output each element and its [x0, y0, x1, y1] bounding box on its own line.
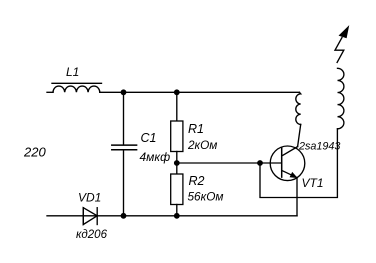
- svg-text:VD1: VD1: [78, 191, 101, 205]
- svg-text:VT1: VT1: [302, 176, 324, 190]
- wire R2 bottom lead: [176, 205, 178, 216]
- inductor L1: [52, 83, 102, 92]
- wire feedback loop to secondary bottom: [260, 129, 337, 198]
- node D: base/feedback junction: [257, 160, 263, 166]
- wire bottom rail: [47, 215, 297, 217]
- node C: R1/R2/base junction: [174, 160, 180, 166]
- svg-text:2кОм: 2кОм: [187, 138, 217, 152]
- svg-text:R1: R1: [188, 122, 204, 136]
- svg-text:56кОм: 56кОм: [188, 190, 224, 204]
- diode VD1: [83, 208, 97, 225]
- capacitor C1: [112, 145, 137, 150]
- svg-text:R2: R2: [189, 174, 205, 188]
- inductor primary winding: [296, 92, 301, 124]
- inductor secondary winding: [338, 68, 344, 129]
- wire emitter lead down: [296, 178, 298, 216]
- resistor R1: [171, 121, 183, 152]
- svg-text:2sa1943: 2sa1943: [298, 140, 340, 152]
- wire base wire from divider to transistor: [177, 162, 281, 164]
- svg-text:L1: L1: [66, 65, 79, 79]
- resistor R2: [171, 174, 183, 205]
- node E: bottom rail / C1 junction: [121, 213, 127, 219]
- wire R1 bottom lead: [176, 152, 178, 164]
- node F: bottom rail / R2 junction: [174, 213, 180, 219]
- svg-text:4мкф: 4мкф: [140, 150, 171, 164]
- svg-text:220: 220: [23, 145, 46, 160]
- node B: top rail / R1 junction: [174, 89, 180, 95]
- wire R1 top lead: [176, 92, 178, 121]
- wire top rail from mains input to primary coil: [47, 91, 299, 93]
- wire collector lead: [298, 124, 301, 146]
- spark discharge arrow: [335, 26, 349, 62]
- transistor VT1: [270, 146, 305, 181]
- node A: top rail / C1 junction: [121, 89, 127, 95]
- wire C1 branch vertical: [123, 92, 125, 216]
- svg-text:кд206: кд206: [76, 229, 108, 241]
- wire R2 top lead: [176, 163, 178, 174]
- svg-text:C1: C1: [141, 131, 157, 145]
